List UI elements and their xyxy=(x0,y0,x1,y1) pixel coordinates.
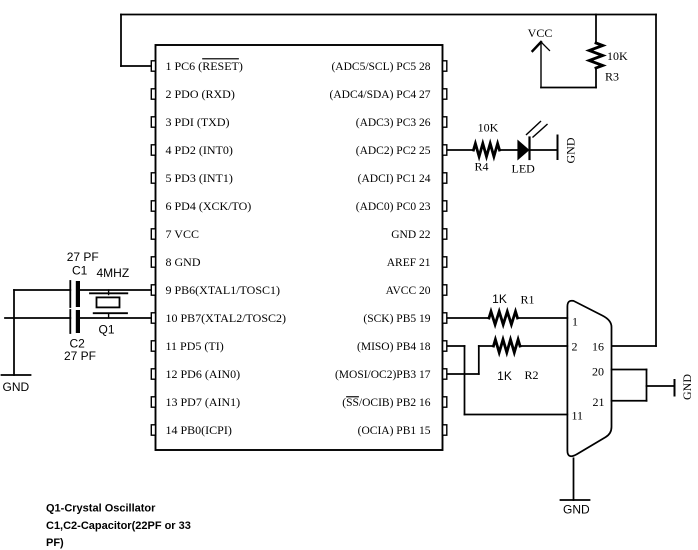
wire xyxy=(5,317,70,319)
wire xyxy=(612,400,647,402)
svg-text:10 PB7(XTAL2/TOSC2): 10 PB7(XTAL2/TOSC2) xyxy=(166,311,287,325)
wire xyxy=(80,289,151,291)
svg-text:6 PD4 (XCK/TO): 6 PD4 (XCK/TO) xyxy=(166,199,252,213)
svg-text:13 PD7 (AIN1): 13 PD7 (AIN1) xyxy=(166,395,241,409)
svg-text:(ADC4/SDA) PC4 27: (ADC4/SDA) PC4 27 xyxy=(330,89,431,101)
svg-text:(ADC0) PC0 23: (ADC0) PC0 23 xyxy=(356,201,431,213)
wire xyxy=(573,458,575,500)
svg-text:12 PD6 (AIN0): 12 PD6 (AIN0) xyxy=(166,367,241,381)
svg-text:1K: 1K xyxy=(492,292,507,306)
svg-text:(OCIA) PB1 15: (OCIA) PB1 15 xyxy=(358,425,431,437)
resistor R4 xyxy=(474,144,500,157)
connector J1 xyxy=(567,301,611,457)
svg-text:11 PD5 (TI): 11 PD5 (TI) xyxy=(166,339,224,353)
svg-text:PF): PF) xyxy=(46,537,64,549)
wire xyxy=(464,346,466,415)
wire xyxy=(518,317,568,319)
svg-text:8 GND: 8 GND xyxy=(166,255,201,269)
svg-text:27 PF: 27 PF xyxy=(67,250,99,264)
svg-text:(SS/OCIB) PB2 16: (SS/OCIB) PB2 16 xyxy=(342,397,430,409)
ground (right) xyxy=(674,380,676,396)
svg-text:GND: GND xyxy=(564,137,578,163)
power VCC xyxy=(533,42,550,88)
svg-text:(MOSI/OC2)PB3 17: (MOSI/OC2)PB3 17 xyxy=(335,369,431,381)
wire xyxy=(530,149,558,151)
wire xyxy=(595,68,597,88)
wire xyxy=(465,414,568,416)
svg-text:(ADCI) PC1 24: (ADCI) PC1 24 xyxy=(358,173,431,185)
svg-text:GND: GND xyxy=(3,380,30,394)
wire xyxy=(120,15,122,67)
wire xyxy=(121,65,151,67)
ground (connector) xyxy=(561,499,590,501)
svg-text:R3: R3 xyxy=(605,70,619,84)
svg-text:9 PB6(XTAL1/TOSC1): 9 PB6(XTAL1/TOSC1) xyxy=(166,283,281,297)
svg-text:11: 11 xyxy=(572,409,584,423)
wire xyxy=(478,346,480,374)
svg-text:14 PB0(ICPI): 14 PB0(ICPI) xyxy=(166,423,232,437)
svg-text:27 PF: 27 PF xyxy=(64,349,96,363)
svg-text:(ADC2) PC2 25: (ADC2) PC2 25 xyxy=(356,145,431,157)
resistor R1 xyxy=(489,312,518,325)
ground (left) xyxy=(2,374,31,376)
svg-text:C1: C1 xyxy=(72,264,88,278)
svg-text:LED: LED xyxy=(512,162,536,176)
svg-text:3 PDI (TXD): 3 PDI (TXD) xyxy=(166,115,230,129)
wire xyxy=(447,149,474,151)
svg-text:AVCC 20: AVCC 20 xyxy=(386,285,431,297)
ground (LED) xyxy=(557,136,559,160)
svg-text:5 PD3 (INT1): 5 PD3 (INT1) xyxy=(166,171,233,185)
wire xyxy=(647,385,675,387)
svg-text:(ADC3) PC3 26: (ADC3) PC3 26 xyxy=(356,117,431,129)
svg-text:AREF 21: AREF 21 xyxy=(387,257,431,269)
crystal Q1 xyxy=(90,290,127,318)
wire xyxy=(447,345,465,347)
wire xyxy=(612,369,647,371)
LED D1 xyxy=(517,122,547,161)
svg-text:4MHZ: 4MHZ xyxy=(97,266,130,280)
resistor R3 xyxy=(589,43,603,68)
svg-text:21: 21 xyxy=(593,395,605,409)
svg-text:GND 22: GND 22 xyxy=(391,229,431,241)
svg-text:1: 1 xyxy=(572,315,578,329)
svg-text:7 VCC: 7 VCC xyxy=(166,227,199,241)
wire xyxy=(646,370,648,401)
svg-text:16: 16 xyxy=(592,340,604,354)
wire xyxy=(541,87,596,89)
wire xyxy=(13,290,15,375)
svg-text:Q1-Crystal Oscillator: Q1-Crystal Oscillator xyxy=(46,503,156,515)
svg-text:R1: R1 xyxy=(520,293,534,307)
svg-text:10K: 10K xyxy=(607,49,628,63)
svg-text:10K: 10K xyxy=(478,121,499,135)
svg-text:(ADC5/SCL) PC5 28: (ADC5/SCL) PC5 28 xyxy=(331,61,430,73)
wire xyxy=(121,14,656,16)
wire xyxy=(447,373,479,375)
wire xyxy=(500,149,518,151)
capacitor C1 xyxy=(70,281,80,307)
svg-text:1K: 1K xyxy=(497,369,512,383)
IC U1 microcontroller body xyxy=(156,45,443,450)
pin stubs left xyxy=(151,61,155,435)
svg-text:C1,C2-Capacitor(22PF or 33: C1,C2-Capacitor(22PF or 33 xyxy=(46,520,191,532)
wire xyxy=(447,317,490,319)
wire xyxy=(80,317,151,319)
svg-text:R4: R4 xyxy=(475,160,489,174)
svg-text:1 PC6 (RESET): 1 PC6 (RESET) xyxy=(166,59,243,73)
resistor R2 xyxy=(494,340,521,353)
capacitor C2 xyxy=(70,310,80,333)
wire xyxy=(14,289,70,291)
wire xyxy=(595,15,597,44)
svg-text:2 PDO (RXD): 2 PDO (RXD) xyxy=(166,87,235,101)
svg-text:(MISO) PB4 18: (MISO) PB4 18 xyxy=(357,341,431,353)
svg-text:GND: GND xyxy=(680,374,694,400)
pin stubs right xyxy=(443,61,447,435)
svg-text:2: 2 xyxy=(572,340,578,354)
wire xyxy=(520,345,567,347)
svg-text:GND: GND xyxy=(563,503,590,517)
wire xyxy=(479,345,494,347)
svg-text:(SCK) PB5 19: (SCK) PB5 19 xyxy=(363,313,430,325)
svg-text:Q1: Q1 xyxy=(99,323,115,337)
svg-text:VCC: VCC xyxy=(528,26,553,40)
wire xyxy=(612,345,656,347)
svg-text:20: 20 xyxy=(592,365,604,379)
svg-text:R2: R2 xyxy=(524,368,538,382)
svg-text:4 PD2 (INT0): 4 PD2 (INT0) xyxy=(166,143,233,157)
wire xyxy=(655,15,657,347)
